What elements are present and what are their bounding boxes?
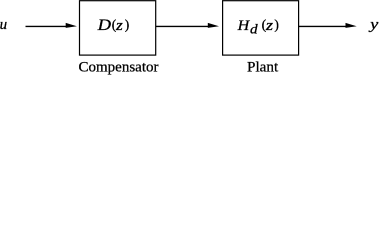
block Hd(z) plant box	[223, 1, 299, 55]
svg-text:Plant: Plant	[247, 60, 279, 76]
svg-text:Hd(z): Hd(z)	[237, 17, 279, 36]
wire compensator to plant	[156, 25, 209, 27]
svg-text:u: u	[0, 17, 7, 33]
arrowhead to output	[346, 23, 357, 28]
arrowhead into plant	[208, 23, 219, 28]
svg-text:Compensator: Compensator	[79, 60, 159, 76]
arrowhead into compensator	[66, 23, 77, 28]
svg-text:D(z): D(z)	[96, 17, 129, 34]
svg-text:y: y	[368, 17, 379, 33]
block D(z) compensator box	[80, 1, 156, 55]
wire plant to output y	[299, 25, 347, 27]
wire input u to compensator	[26, 25, 68, 27]
